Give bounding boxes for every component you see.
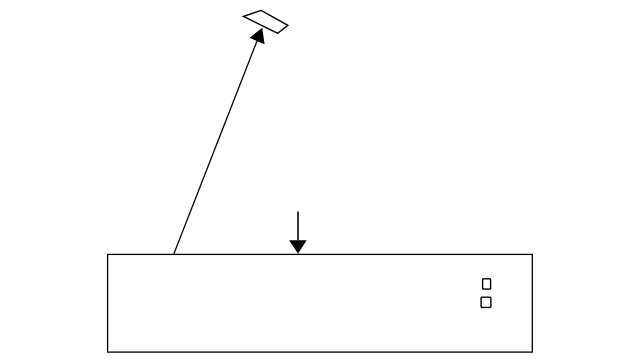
reflected ray arrow shaft	[174, 41, 257, 254]
tilted panel (quadrilateral)	[243, 10, 288, 33]
label glyph box 2	[481, 297, 491, 307]
incident ray arrowhead	[289, 240, 307, 253]
surface rectangle	[108, 254, 533, 352]
incident ray arrow shaft	[297, 212, 299, 241]
reflected ray arrowhead	[250, 28, 265, 45]
label glyph box 1	[483, 279, 491, 289]
